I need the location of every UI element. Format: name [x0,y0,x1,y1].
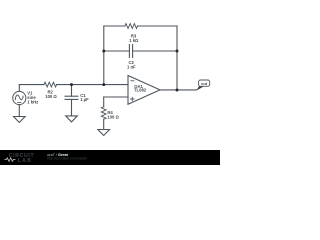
svg-text:out: out [201,82,208,86]
svg-text:100 Ω: 100 Ω [45,94,57,99]
svg-text:1 µF: 1 µF [80,97,89,102]
svg-text:http://circuitlab.com/c/ke8v: http://circuitlab.com/c/ke8v [47,157,87,161]
svg-text:TL082: TL082 [134,88,147,93]
svg-text:1 kΩ: 1 kΩ [129,38,139,43]
svg-text:1 kHz: 1 kHz [27,100,38,105]
svg-text:LAB: LAB [18,158,32,164]
svg-text:100 Ω: 100 Ω [107,114,119,119]
svg-text:1 nF: 1 nF [127,65,136,70]
